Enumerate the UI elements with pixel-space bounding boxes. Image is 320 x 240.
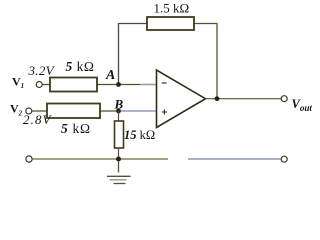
- op-amp U1: [157, 70, 206, 128]
- svg-text:5 kΩ: 5 kΩ: [61, 121, 91, 136]
- svg-text:B: B: [114, 97, 124, 112]
- ground: [107, 161, 131, 184]
- wire: V2 terminal to op-amp non-inverting input: [32, 110, 119, 112]
- node A junction dot: [116, 82, 121, 87]
- output node junction dot: [215, 96, 220, 101]
- terminal V1 (open circle): [36, 82, 42, 88]
- svg-text:1.5 kΩ: 1.5 kΩ: [154, 1, 190, 16]
- op-amp U1 inverting pin mark: [162, 82, 167, 84]
- op-amp U1 non-inverting pin mark: [162, 109, 167, 114]
- svg-text:A: A: [105, 68, 115, 83]
- wire: node A to feedback (up): [119, 24, 148, 85]
- terminal: bottom-right (open circle): [281, 156, 287, 162]
- node B junction dot: [116, 109, 121, 114]
- resistor R2 5 kOhm (top input): [50, 78, 97, 92]
- wire: bottom rail right segment: [188, 158, 281, 160]
- junction dot: ground rail: [116, 157, 121, 162]
- resistor R4 15 kOhm (vertical): [115, 121, 124, 148]
- wire: op-amp output: [206, 98, 282, 100]
- wire: resistor R4 to ground rail: [118, 148, 120, 159]
- wire: V1 terminal to op-amp inverting input: [43, 84, 157, 86]
- svg-text:3.2V: 3.2V: [28, 63, 56, 78]
- wire: node B down to resistor R4: [118, 111, 120, 121]
- wire: bottom rail left segment: [33, 158, 169, 160]
- terminal Vout (open circle): [281, 96, 287, 102]
- wire: node B to non-inverting input (light): [119, 110, 157, 112]
- svg-text:15 kΩ: 15 kΩ: [124, 128, 155, 142]
- wire: light segment before inverting input: [140, 84, 157, 86]
- resistor R1 1.5 kOhm (feedback): [147, 17, 194, 30]
- terminal: bottom-left (open circle): [26, 156, 32, 162]
- resistor R3 5 kOhm (bottom input): [47, 104, 100, 119]
- svg-text:5 kΩ: 5 kΩ: [66, 59, 95, 74]
- terminal V2 (open circle): [26, 108, 32, 114]
- wire: feedback resistor right to output node (down): [194, 24, 217, 99]
